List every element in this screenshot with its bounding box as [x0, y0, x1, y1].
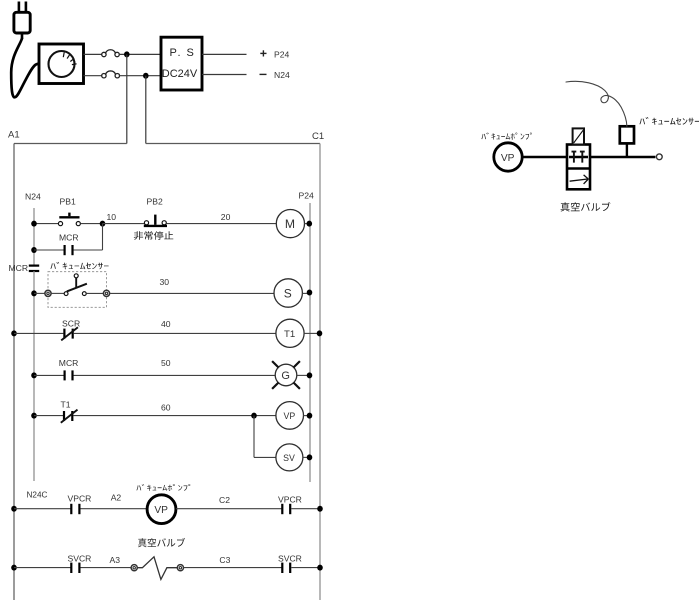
contact SCR (NC)	[61, 327, 78, 340]
contact MCR (NO)	[65, 370, 73, 380]
svg-text:50: 50	[161, 358, 171, 368]
svg-text:C3: C3	[219, 555, 230, 565]
node on bottom supply wire	[143, 73, 149, 79]
contact MCR in N24 rail	[29, 266, 39, 271]
pipe outlet terminal 0	[656, 154, 662, 160]
label vacuum valve (pneumatic)	[561, 202, 611, 211]
contact VPCR right (NO)	[282, 504, 290, 514]
power plug P1	[14, 2, 30, 39]
contact SVCR left (NO)	[71, 563, 79, 573]
wire N24 output	[202, 74, 247, 76]
svg-text:N24: N24	[274, 70, 290, 80]
wire rung5 to coil VP	[73, 415, 276, 417]
plus terminal symbol	[260, 50, 266, 56]
svg-text:MCR: MCR	[59, 232, 79, 242]
coil M	[276, 210, 304, 238]
power supply unit P.S DC24V	[161, 37, 202, 90]
svg-text:P24: P24	[299, 191, 315, 201]
wire fuse F2 to power supply	[120, 75, 162, 77]
wire lamp G to P24 rail	[297, 374, 310, 376]
wire rung7 from A1 frame	[14, 567, 71, 569]
wire VPCR to motor VP	[80, 508, 147, 510]
wire SV branch horizontal	[254, 456, 276, 458]
wire rung1 from N24 rail	[34, 223, 58, 225]
wire MCR branch vertical	[102, 224, 104, 250]
node rung7 left on A1 frame	[11, 565, 17, 571]
fuse F2 (bottom line)	[102, 71, 120, 78]
wire SV branch vertical	[253, 416, 255, 458]
power cord from plug to meter	[11, 39, 39, 98]
svg-text:60: 60	[161, 403, 171, 413]
svg-text:SVCR: SVCR	[68, 553, 92, 563]
svg-text:A1: A1	[8, 130, 20, 141]
svg-text:C2: C2	[219, 495, 230, 505]
wire rung5 from N24 rail	[34, 415, 63, 417]
pushbutton PB2 (NC) emergency stop	[144, 215, 167, 226]
wire rung2 from N24 rail	[34, 292, 45, 294]
frame left rail A1	[13, 144, 15, 600]
node 10	[100, 221, 106, 227]
node rung2 right	[307, 290, 313, 296]
valve solenoid actuator	[573, 128, 584, 144]
frame top line right segment	[146, 143, 320, 145]
valve closed-position symbol	[572, 152, 585, 163]
minus terminal symbol	[260, 73, 267, 75]
wire MCR branch left	[34, 249, 64, 251]
label hijo-teishi (emergency stop)	[134, 231, 174, 240]
meter dial	[49, 51, 77, 77]
rail P24	[309, 203, 311, 482]
wire fuse F1 to power supply	[119, 53, 161, 55]
svg-text:.: .	[178, 47, 181, 59]
solenoid terminal left	[131, 565, 137, 571]
contact VPCR left (NO)	[71, 504, 79, 514]
svg-text:A3: A3	[110, 555, 121, 565]
svg-text:SVCR: SVCR	[278, 554, 302, 564]
wire coil T1 to C1 frame	[304, 332, 320, 334]
node rung4 left	[31, 372, 37, 378]
pipe through valve to outlet	[590, 156, 655, 159]
wire MCR branch right	[74, 249, 103, 251]
wire PB1 to node 10	[81, 223, 103, 225]
svg-text:VPCR: VPCR	[278, 495, 302, 505]
terminal left of sensor	[45, 290, 51, 296]
wire meter to fuse F2	[84, 75, 102, 77]
svg-text:DC24V: DC24V	[162, 68, 198, 80]
wire drop to C1 frame	[145, 76, 147, 144]
wire PB2 to coil M	[166, 223, 276, 225]
vacuum sensor contact (NO limit switch)	[64, 274, 87, 296]
svg-text:S: S	[284, 286, 292, 300]
wire SVCR to solenoid	[80, 567, 131, 569]
solenoid SV coil (zigzag)	[137, 557, 177, 580]
wire coil VP to P24 rail	[304, 415, 311, 417]
node rung3 right on C1 frame	[317, 330, 323, 336]
pipe inside valve	[569, 156, 588, 158]
label vacuum pump (pneumatic)	[481, 133, 531, 140]
rail N24 lower segment	[33, 271, 35, 481]
valve flow-arrow symbol	[570, 175, 589, 184]
label vacuum pump (ladder)	[136, 484, 190, 491]
svg-text:VPCR: VPCR	[68, 493, 92, 503]
node rung5 left	[31, 413, 37, 419]
svg-text:S: S	[187, 47, 194, 59]
svg-text:T1: T1	[61, 400, 71, 410]
wire coil M to P24 rail	[305, 223, 311, 225]
frame top line left segment	[14, 143, 127, 145]
svg-text:VP: VP	[154, 505, 168, 516]
label vacuum sensor (ladder)	[50, 262, 108, 269]
wire rung6 from A1 frame	[14, 508, 71, 510]
svg-text:M: M	[285, 217, 295, 231]
frame right rail C1	[319, 144, 321, 600]
wire rung4 to lamp G	[74, 374, 276, 376]
node rung7 right on C1 frame	[317, 565, 323, 571]
svg-text:PB1: PB1	[60, 196, 76, 206]
svg-text:P: P	[170, 47, 177, 59]
node rung4 right	[307, 372, 313, 378]
wire coil S to P24 rail	[302, 292, 310, 294]
svg-text:PB2: PB2	[147, 196, 163, 206]
node SV right	[307, 454, 313, 460]
wire rung4 from N24 rail	[34, 374, 64, 376]
wire rung2 to coil S	[110, 292, 274, 294]
coil T1	[276, 319, 304, 347]
solenoid terminal right	[177, 565, 183, 571]
node on top supply wire	[124, 51, 130, 57]
svg-text:MCR: MCR	[59, 358, 79, 368]
svg-text:VP: VP	[284, 411, 296, 421]
node rung2 left	[31, 290, 37, 296]
wire rung3 to coil T1	[74, 332, 276, 334]
terminal right of sensor	[103, 290, 109, 296]
vacuum sensor box	[620, 126, 634, 143]
svg-text:20: 20	[221, 212, 231, 222]
node rung5 right	[307, 413, 313, 419]
vacuum sensor dashed enclosure	[48, 272, 107, 308]
node rung1 right	[307, 221, 313, 227]
node rung3 left on A1 frame	[11, 330, 17, 336]
wire rung3 from A1 frame	[14, 332, 63, 334]
node rung1 left	[31, 221, 37, 227]
coil S	[274, 279, 302, 307]
svg-text:N24: N24	[25, 192, 41, 202]
wire drop to A1 frame	[126, 54, 128, 143]
pilot lamp G	[272, 361, 300, 389]
node MCR branch left	[31, 247, 37, 253]
node rung6 left on A1 frame	[11, 506, 17, 512]
motor VP (vacuum pump)	[147, 495, 176, 524]
svg-text:C1: C1	[312, 131, 324, 142]
svg-text:G: G	[281, 370, 290, 382]
fuse F1 (top line)	[102, 50, 120, 57]
contact SVCR right (NO)	[282, 563, 290, 573]
coil SV	[276, 444, 303, 471]
svg-text:A2: A2	[111, 493, 122, 503]
pushbutton PB1 (NO)	[58, 213, 80, 226]
wire contact to right terminal	[86, 292, 103, 294]
wire VPCR right to C1 frame	[291, 508, 320, 510]
node rung6 right on C1 frame	[317, 506, 323, 512]
wire coil SV to P24 rail	[303, 456, 310, 458]
svg-text:P24: P24	[274, 50, 290, 60]
wire motor VP to VPCR right	[176, 508, 282, 510]
label vacuum sensor (pneumatic)	[639, 117, 699, 125]
wire sensor terminal to contact	[51, 292, 64, 294]
wire meter to fuse F1	[84, 53, 102, 55]
svg-text:T1: T1	[284, 329, 295, 340]
svg-text:SV: SV	[283, 453, 295, 463]
label vacuum valve (ladder)	[138, 538, 185, 547]
wire solenoid to SVCR right	[184, 567, 282, 569]
svg-text:N24C: N24C	[27, 490, 48, 499]
svg-text:MCR: MCR	[9, 263, 29, 273]
svg-text:10: 10	[107, 212, 117, 222]
vacuum valve body	[567, 145, 590, 190]
sensor signal cable (pigtail)	[566, 81, 627, 126]
svg-text:VP: VP	[501, 153, 515, 164]
contact MCR (NO, self-hold branch)	[65, 245, 73, 255]
rail N24 upper segment	[33, 208, 35, 265]
contact T1 (NC)	[61, 410, 78, 423]
node rung5 branch	[251, 413, 257, 419]
meter box (leakage breaker)	[39, 44, 84, 84]
wire P24 output	[202, 53, 247, 55]
wire SVCR right to C1 frame	[291, 567, 320, 569]
svg-text:40: 40	[161, 319, 171, 329]
coil VP	[276, 402, 304, 430]
wire node 10 to PB2	[103, 223, 145, 225]
wire sensor to pipe	[626, 143, 628, 157]
pipe VP to valve	[522, 156, 567, 159]
svg-text:30: 30	[160, 277, 170, 287]
vacuum pump VP (pneumatic)	[494, 143, 522, 171]
